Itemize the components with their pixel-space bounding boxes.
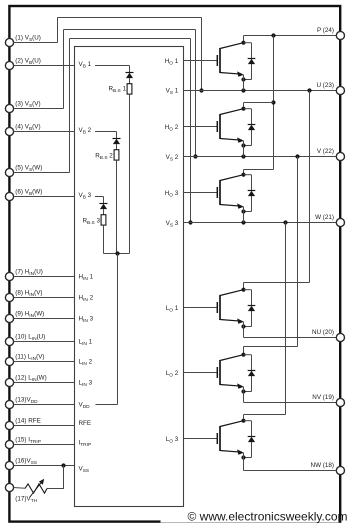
pin P (24) label bbox=[317, 27, 334, 34]
svg-text:(3) VS(V): (3) VS(V) bbox=[15, 100, 40, 109]
svg-text:HIN 1: HIN 1 bbox=[79, 274, 94, 283]
svg-text:V (22): V (22) bbox=[317, 148, 334, 155]
wire collector connection Q1 bbox=[243, 36, 245, 43]
svg-text:(13)VDD: (13)VDD bbox=[15, 396, 38, 405]
pin NU (20) terminal circle bbox=[336, 333, 344, 341]
wire R_BS2 to common rail bbox=[116, 160, 118, 253]
wire R_BS1 to common rail bbox=[129, 94, 131, 253]
IC pin label VDD bbox=[79, 402, 91, 411]
pin 1 terminal circle bbox=[5, 38, 13, 46]
label R_BS2 bbox=[95, 153, 113, 162]
svg-text:(7) HIN(U): (7) HIN(U) bbox=[15, 268, 43, 277]
pin 16 label bbox=[15, 457, 37, 466]
wire HO1 gate lead bbox=[184, 60, 217, 62]
wire HO2 gate lead bbox=[184, 126, 217, 128]
wire pin LIN(W) to IC box bbox=[14, 382, 75, 384]
pin 10 label bbox=[15, 333, 45, 342]
wire net VS(W) from pin to phase rail bbox=[14, 39, 191, 223]
IC pin label LO2 bbox=[166, 370, 179, 379]
IC pin label LO1 bbox=[166, 305, 179, 314]
svg-text:VSS: VSS bbox=[79, 465, 90, 474]
node Q5 emitter junction bbox=[241, 389, 245, 393]
wire VB1 to bootstrap chain bbox=[95, 66, 130, 73]
transistor Q5 (IGBT) bbox=[217, 355, 244, 389]
node Q6 collector bbox=[241, 419, 245, 423]
watermark text bbox=[188, 510, 348, 524]
wire U rail (VS1) bbox=[184, 90, 337, 92]
IC pin label VB 3 bbox=[79, 192, 92, 201]
node VS(V) junction on phase rail bbox=[193, 154, 197, 158]
pin W (21) terminal circle bbox=[336, 218, 344, 226]
node Q2 collector bbox=[241, 107, 245, 111]
diode D6 (freewheel) bbox=[248, 437, 256, 443]
wire freewheel diode D5 branch bbox=[244, 355, 252, 392]
wire net VS(U) from pin to phase rail bbox=[14, 18, 202, 91]
transistor Q2 (IGBT) bbox=[217, 109, 244, 143]
node Q2 emitter junction bbox=[241, 143, 245, 147]
pin 4 terminal circle bbox=[5, 127, 13, 135]
svg-text:LO 3: LO 3 bbox=[166, 436, 179, 445]
diode D1 (freewheel) bbox=[248, 59, 256, 65]
wire HO3 gate lead bbox=[184, 192, 217, 194]
gate driver IC U1 (inner box) bbox=[75, 47, 184, 507]
wire collector connection Q4 bbox=[244, 283, 310, 290]
svg-text:VS 2: VS 2 bbox=[166, 154, 179, 163]
IC pin label HO2 bbox=[165, 124, 179, 133]
pin 5 terminal circle bbox=[5, 168, 13, 176]
svg-text:W (21): W (21) bbox=[315, 214, 334, 221]
wire freewheel diode D2 branch bbox=[244, 109, 252, 146]
wire collector connection Q2 bbox=[244, 103, 274, 109]
svg-text:NW (18): NW (18) bbox=[311, 462, 334, 469]
svg-text:LIN 3: LIN 3 bbox=[79, 380, 93, 389]
svg-text:(17)VTH: (17)VTH bbox=[15, 496, 37, 505]
pin 8 terminal circle bbox=[5, 293, 13, 301]
label R_BS1 bbox=[108, 86, 126, 95]
wire W rail (VS3) bbox=[184, 222, 337, 224]
pin 16 terminal circle bbox=[5, 461, 13, 469]
node V rail / emitter Q2 junction bbox=[241, 154, 245, 158]
svg-text:(4) VB(V): (4) VB(V) bbox=[15, 123, 40, 132]
pin 6 terminal circle bbox=[5, 192, 13, 200]
wire thermistor to VSS node bbox=[14, 466, 65, 489]
diode D5 (freewheel) bbox=[248, 371, 256, 377]
wire pin VB(W) to IC box bbox=[14, 196, 75, 198]
pin 10 terminal circle bbox=[5, 337, 13, 345]
wire pin VSS to IC box bbox=[14, 465, 75, 467]
pin V (22) terminal circle bbox=[336, 152, 344, 160]
IC pin label VS3 bbox=[166, 220, 179, 229]
IC pin label VB 2 bbox=[79, 127, 92, 136]
svg-text:VS 1: VS 1 bbox=[166, 88, 179, 97]
svg-text:(15) ITRIP: (15) ITRIP bbox=[15, 436, 41, 445]
pin U (23) label bbox=[317, 82, 335, 89]
thermistor RTH (pin 17) bbox=[25, 479, 47, 498]
wire P bus drop to Q2/Q3 collectors bbox=[273, 36, 275, 170]
wire NU rail bbox=[244, 337, 337, 339]
IC pin label HIN 2 bbox=[79, 295, 94, 304]
svg-text:(9) HIN(W): (9) HIN(W) bbox=[15, 310, 44, 319]
wire R_BS3 to common rail bbox=[103, 225, 105, 253]
node U rail / low-side drop junction bbox=[307, 88, 311, 92]
pin 13 label bbox=[15, 396, 38, 405]
pin NU (20) label bbox=[312, 329, 334, 336]
wire LO3 gate lead bbox=[184, 438, 217, 440]
wire NV rail bbox=[244, 402, 337, 404]
svg-text:RFE: RFE bbox=[79, 420, 92, 427]
transistor Q4 (IGBT) bbox=[217, 290, 244, 324]
transistor Q3 (IGBT) bbox=[217, 175, 244, 209]
resistor R_BS2 bbox=[114, 150, 119, 160]
svg-text:VB 3: VB 3 bbox=[79, 192, 92, 201]
IC pin label LIN 1 bbox=[79, 339, 93, 348]
wire bootstrap rail to VDD bbox=[96, 254, 118, 405]
wire pin LIN(U) to IC box bbox=[14, 341, 75, 343]
wire pin RFE to IC box bbox=[14, 425, 75, 427]
pin 8 label bbox=[15, 289, 42, 298]
wire collector connection Q6 bbox=[244, 415, 286, 421]
wire pin HIN(W) to IC box bbox=[14, 318, 75, 320]
node bootstrap rail / VDD junction bbox=[115, 251, 119, 255]
pin 12 terminal circle bbox=[5, 378, 13, 386]
pin 12 label bbox=[15, 374, 46, 383]
resistor R_BS3 bbox=[101, 215, 106, 225]
wire freewheel diode D1 branch bbox=[244, 43, 252, 80]
svg-text:VB 1: VB 1 bbox=[79, 61, 92, 70]
wire Q3 emitter to rail bbox=[243, 207, 245, 223]
IC pin label LIN 2 bbox=[79, 359, 93, 368]
node VS(W) junction on phase rail bbox=[188, 220, 192, 224]
node W rail / emitter Q3 junction bbox=[241, 220, 245, 224]
transistor Q1 (IGBT) bbox=[217, 43, 244, 77]
node Q5 collector bbox=[241, 353, 245, 357]
svg-text:HIN 2: HIN 2 bbox=[79, 295, 94, 304]
wire VB3 to bootstrap chain bbox=[95, 197, 104, 204]
node W rail / low-side drop junction bbox=[283, 220, 287, 224]
wire Q4 emitter to rail bbox=[243, 322, 245, 338]
svg-text:HIN 3: HIN 3 bbox=[79, 316, 94, 325]
pin 2 label bbox=[15, 57, 41, 66]
IC pin label ITRIP bbox=[79, 440, 92, 449]
svg-text:(14) RFE: (14) RFE bbox=[15, 417, 41, 424]
svg-text:(8) HIN(V): (8) HIN(V) bbox=[15, 289, 42, 298]
pin 9 terminal circle bbox=[5, 314, 13, 322]
wire NW rail bbox=[244, 470, 337, 472]
wire P rail bbox=[244, 35, 337, 37]
wire V rail drop to Q5 collector bbox=[297, 157, 299, 347]
svg-text:LO 1: LO 1 bbox=[166, 305, 179, 314]
pin 4 label bbox=[15, 123, 40, 132]
pin W (21) label bbox=[315, 214, 334, 221]
pin 15 label bbox=[15, 436, 41, 445]
svg-text:(11) LIN(V): (11) LIN(V) bbox=[15, 353, 44, 362]
svg-text:(5) VS(W): (5) VS(W) bbox=[15, 164, 42, 173]
svg-text:(6) VB(W): (6) VB(W) bbox=[15, 188, 42, 197]
diode D2 (freewheel) bbox=[248, 125, 256, 131]
node Q3 emitter junction bbox=[241, 209, 245, 213]
node Q6 emitter junction bbox=[241, 455, 245, 459]
node VS(U) junction on phase rail bbox=[199, 88, 203, 92]
IC pin label RFE bbox=[79, 420, 92, 427]
pin 13 terminal circle bbox=[5, 400, 13, 408]
pin 17 label bbox=[15, 496, 37, 505]
wire freewheel diode D4 branch bbox=[244, 290, 252, 327]
svg-text:LO 2: LO 2 bbox=[166, 370, 179, 379]
node U rail / emitter Q1 junction bbox=[241, 88, 245, 92]
pin 17 terminal circle bbox=[5, 483, 13, 491]
svg-text:VS 3: VS 3 bbox=[166, 220, 179, 229]
IC pin label HO1 bbox=[165, 58, 179, 67]
svg-text:VDD: VDD bbox=[79, 402, 91, 411]
node P rail tee bbox=[271, 33, 275, 37]
wire pin HIN(U) to IC box bbox=[14, 276, 75, 278]
node Q1 emitter junction bbox=[241, 77, 245, 81]
wire bootstrap common rail bbox=[104, 253, 130, 255]
resistor R_BS1 bbox=[127, 84, 132, 94]
diode D3 (freewheel) bbox=[248, 191, 256, 197]
wire pin VB(V) to IC box bbox=[14, 131, 75, 133]
node P bus / Q2 collector junction bbox=[271, 100, 275, 104]
pin NW (18) label bbox=[311, 462, 334, 469]
wire pin VB(U) to IC box bbox=[14, 65, 75, 67]
node Q4 emitter junction bbox=[241, 324, 245, 328]
label R_BS3 bbox=[82, 218, 100, 227]
wire W rail drop to Q6 collector bbox=[285, 223, 287, 415]
pin V (22) label bbox=[317, 148, 334, 155]
wire pin LIN(V) to IC box bbox=[14, 361, 75, 363]
pin 9 label bbox=[15, 310, 44, 319]
svg-text:NU (20): NU (20) bbox=[312, 329, 334, 336]
pin P (24) terminal circle bbox=[336, 31, 344, 39]
IC pin label HO3 bbox=[165, 190, 179, 199]
wire VB2 to bootstrap chain bbox=[95, 132, 117, 139]
svg-text:(1) VS(U): (1) VS(U) bbox=[15, 34, 41, 43]
svg-text:© www.electronicsweekly.com: © www.electronicsweekly.com bbox=[188, 510, 348, 524]
watermark background bbox=[161, 511, 339, 523]
IC pin label VSS bbox=[79, 465, 90, 474]
pin 3 label bbox=[15, 100, 40, 109]
pin 15 terminal circle bbox=[5, 440, 13, 448]
pin U (23) terminal circle bbox=[336, 86, 344, 94]
wire freewheel diode D6 branch bbox=[244, 421, 252, 458]
node Q3 collector bbox=[241, 173, 245, 177]
wire collector connection Q5 bbox=[244, 347, 298, 355]
pin 7 label bbox=[15, 268, 43, 277]
svg-text:P (24): P (24) bbox=[317, 27, 334, 34]
wire collector connection Q3 bbox=[244, 170, 274, 175]
wire Q1 emitter to rail bbox=[243, 75, 245, 91]
svg-text:(10) LIN(U): (10) LIN(U) bbox=[15, 333, 45, 342]
IC pin label HIN 3 bbox=[79, 316, 94, 325]
wire pin HIN(V) to IC box bbox=[14, 297, 75, 299]
wire Q6 emitter to rail bbox=[243, 453, 245, 471]
pin 14 label bbox=[15, 417, 41, 424]
svg-text:RB.S 1: RB.S 1 bbox=[108, 86, 126, 95]
wire freewheel diode D3 branch bbox=[244, 175, 252, 212]
node V rail / low-side drop junction bbox=[295, 154, 299, 158]
wire pin ITRIP to IC box bbox=[14, 444, 75, 446]
pin 11 label bbox=[15, 353, 44, 362]
wire net VS(V) from pin to phase rail bbox=[14, 30, 196, 157]
svg-text:HO 1: HO 1 bbox=[165, 58, 179, 67]
wire Q5 emitter to rail bbox=[243, 387, 245, 403]
svg-text:RB.S 3: RB.S 3 bbox=[82, 218, 100, 227]
transistor Q6 (IGBT) bbox=[217, 421, 244, 455]
svg-text:HO 3: HO 3 bbox=[165, 190, 179, 199]
svg-text:LIN 2: LIN 2 bbox=[79, 359, 93, 368]
pin 7 terminal circle bbox=[5, 272, 13, 280]
svg-text:U (23): U (23) bbox=[317, 82, 335, 89]
pin 2 terminal circle bbox=[5, 61, 13, 69]
pin NV (19) terminal circle bbox=[336, 398, 344, 406]
IC pin label VS1 bbox=[166, 88, 179, 97]
pin 14 terminal circle bbox=[5, 421, 13, 429]
diode D4 (freewheel) bbox=[248, 306, 256, 312]
pin 11 terminal circle bbox=[5, 357, 13, 365]
pin NV (19) label bbox=[312, 394, 334, 401]
bootstrap diode D_BS2 bbox=[113, 139, 121, 150]
svg-text:RB.S 2: RB.S 2 bbox=[95, 153, 113, 162]
wire pin VDD to IC box bbox=[14, 404, 75, 406]
wire LO1 gate lead bbox=[184, 307, 217, 309]
wire V rail (VS2) bbox=[184, 156, 337, 158]
pin 5 label bbox=[15, 164, 42, 173]
svg-text:VB 2: VB 2 bbox=[79, 127, 92, 136]
pin 3 terminal circle bbox=[5, 104, 13, 112]
wire LO2 gate lead bbox=[184, 372, 217, 374]
node Q1 collector bbox=[241, 41, 245, 45]
node Q4 collector bbox=[241, 288, 245, 292]
svg-text:(12) LIN(W): (12) LIN(W) bbox=[15, 374, 46, 383]
bootstrap diode D_BS1 bbox=[126, 73, 134, 84]
svg-text:LIN 1: LIN 1 bbox=[79, 339, 93, 348]
pin 1 label bbox=[15, 34, 41, 43]
svg-text:HO 2: HO 2 bbox=[165, 124, 179, 133]
node VSS/thermistor junction bbox=[61, 463, 65, 467]
wire Q2 emitter to rail bbox=[243, 141, 245, 157]
svg-text:NV (19): NV (19) bbox=[312, 394, 334, 401]
IC pin label HIN 1 bbox=[79, 274, 94, 283]
IC pin label VB 1 bbox=[79, 61, 92, 70]
IC pin label LO3 bbox=[166, 436, 179, 445]
svg-text:ITRIP: ITRIP bbox=[79, 440, 92, 449]
wire U rail drop to Q4 collector bbox=[309, 91, 311, 283]
bootstrap diode D_BS3 bbox=[100, 204, 108, 215]
pin 6 label bbox=[15, 188, 42, 197]
pin NW (18) terminal circle bbox=[336, 466, 344, 474]
IC pin label LIN 3 bbox=[79, 380, 93, 389]
svg-text:(2) VB(U): (2) VB(U) bbox=[15, 57, 41, 66]
IC pin label VS2 bbox=[166, 154, 179, 163]
svg-text:(16)VSS: (16)VSS bbox=[15, 457, 37, 466]
